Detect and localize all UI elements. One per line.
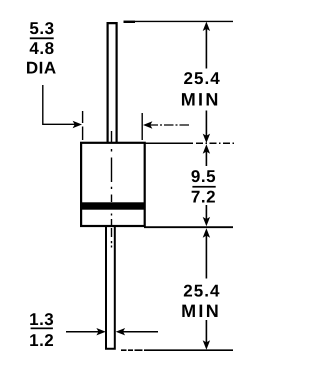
body top extension line dash-dot part — [196, 142, 235, 144]
top 25.4 dim lower shaft — [205, 111, 207, 139]
svg-text:25.4: 25.4 — [183, 281, 220, 300]
fraction bar 9.5/7.2 — [192, 186, 215, 188]
lead width dim left arrowhead — [96, 328, 105, 335]
svg-text:9.5: 9.5 — [191, 167, 216, 186]
top 25.4 dim up arrowhead — [203, 22, 210, 31]
body bottom extension line — [144, 226, 233, 228]
9.5 dim upper shaft — [205, 150, 207, 167]
bottom extension line from lead bottom — [121, 349, 233, 351]
top 25.4 dim upper shaft — [205, 26, 207, 69]
body top extension line — [144, 142, 193, 144]
svg-text:MIN: MIN — [181, 301, 221, 321]
bottom 25.4 dim up arrowhead — [203, 228, 210, 237]
svg-text:1.3: 1.3 — [29, 310, 54, 329]
svg-text:1.2: 1.2 — [29, 331, 54, 350]
top lead — [108, 23, 117, 144]
DIA leader arrowhead — [73, 121, 82, 128]
bottom 25.4 dim lower shaft — [205, 320, 207, 345]
lead width dim right arrowhead — [116, 328, 125, 335]
centerline — [111, 131, 113, 248]
svg-text:5.3: 5.3 — [29, 19, 54, 38]
lead width dim left shaft — [66, 331, 101, 333]
DIA leader line — [43, 85, 77, 124]
9.5 dim down arrowhead — [203, 217, 210, 226]
bottom lead — [106, 227, 115, 349]
DIA right arrowhead — [143, 121, 152, 128]
9.5 dim lower shaft — [205, 205, 207, 221]
top 25.4 dim down arrowhead — [203, 134, 210, 143]
svg-text:7.2: 7.2 — [191, 187, 216, 206]
svg-text:4.8: 4.8 — [29, 39, 54, 58]
fraction bar 1.3/1.2 — [31, 328, 53, 330]
9.5 dim up arrowhead — [203, 144, 210, 153]
svg-text:25.4: 25.4 — [183, 69, 220, 88]
cathode band — [81, 202, 145, 209]
top extension line from lead top — [124, 20, 234, 22]
bottom 25.4 dim down arrowhead — [203, 340, 210, 349]
DIA right dash-dot shaft — [149, 124, 190, 126]
lead width dim right shaft — [121, 331, 158, 333]
svg-text:MIN: MIN — [181, 89, 221, 109]
left extension tick above body — [82, 111, 84, 140]
diode body — [81, 143, 145, 226]
fraction bar 5.3/4.8 — [30, 37, 54, 39]
svg-text:DIA: DIA — [26, 58, 57, 77]
bottom 25.4 dim upper shaft — [205, 234, 207, 279]
right extension tick above body — [141, 113, 143, 140]
top extension line start blob — [124, 21, 136, 23]
